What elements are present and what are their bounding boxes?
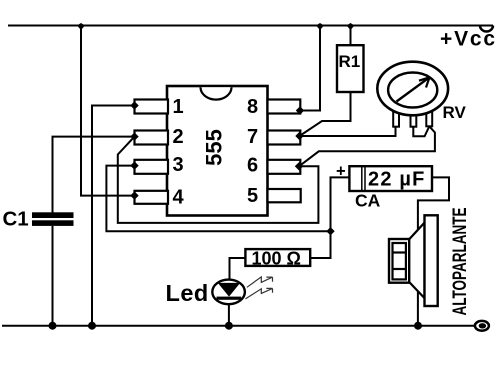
svg-text:4: 4: [173, 187, 185, 209]
node ground dot speaker: [414, 322, 422, 330]
node pin2 junction: [130, 132, 138, 140]
svg-text:C1: C1: [3, 207, 29, 230]
pin 4 stub: [135, 191, 169, 204]
node output-cap junction: [326, 227, 334, 235]
node pin8 junction: [296, 106, 304, 114]
svg-text:R1: R1: [339, 52, 361, 71]
wire output node to 100ohm: [310, 231, 330, 258]
svg-text:100 Ω: 100 Ω: [252, 249, 301, 269]
wire RV right pin to pin6: [299, 126, 435, 166]
pin 6 stub: [268, 160, 301, 174]
node Vcc terminal: [480, 26, 493, 32]
wire pin4 to Vcc rail: [81, 26, 135, 196]
potentiometer RV: [377, 62, 466, 127]
555 IC labels: [173, 96, 259, 209]
capacitor CA 22uF: [336, 163, 432, 211]
wire R1 bottom to pin7: [300, 92, 351, 136]
wire cap plus to output node: [331, 177, 350, 231]
LED D1: [166, 277, 273, 306]
node pin1 junction: [130, 101, 138, 109]
wire RV middle pin tie: [413, 126, 429, 136]
svg-text:+Vcc: +Vcc: [440, 28, 497, 51]
pin 5 stub: [268, 189, 301, 202]
pin 2 stub: [135, 131, 169, 145]
wire LED to ground: [228, 304, 230, 326]
pin 1 stub: [135, 100, 169, 114]
svg-text:CA: CA: [355, 191, 381, 211]
svg-text:555: 555: [202, 129, 227, 166]
svg-text:2: 2: [173, 126, 184, 148]
node ground terminal: [475, 321, 489, 331]
node ground dot LED: [225, 322, 233, 330]
node pin6 junction: [295, 162, 303, 170]
pin 8 stub: [268, 100, 301, 114]
resistor 100 ohm: [245, 249, 310, 269]
svg-text:6: 6: [247, 155, 258, 177]
wire pin2 to C1: [53, 137, 135, 213]
svg-text:7: 7: [247, 126, 258, 148]
node rail tick pin8: [316, 23, 324, 30]
wire bottom ground rail: [2, 325, 475, 327]
wire pin3 output: [106, 166, 330, 232]
node rail tick pin4: [77, 23, 85, 30]
wire cap minus to speaker: [418, 177, 449, 325]
svg-text:ALTOPARLANTE: ALTOPARLANTE: [449, 208, 471, 316]
speaker ALTOPARLANTE: [389, 208, 471, 316]
svg-text:8: 8: [247, 96, 258, 118]
wire R1 top: [350, 26, 352, 46]
pin 3 stub: [135, 160, 169, 174]
wire pin2 to pin6 tie: [118, 137, 319, 223]
wire pin1 to ground: [92, 106, 135, 326]
svg-text:+: +: [336, 163, 346, 181]
op-amp U1 555 IC body: [167, 86, 268, 216]
node ground dot C1: [49, 322, 57, 330]
svg-text:22 µF: 22 µF: [368, 169, 426, 191]
wire pin8 to Vcc rail: [300, 26, 320, 111]
wire C1 to ground: [52, 226, 54, 326]
resistor R1: [337, 45, 364, 92]
svg-text:5: 5: [247, 185, 258, 207]
wire pin7 to RV left pin: [300, 127, 396, 137]
svg-text:3: 3: [173, 154, 184, 176]
svg-text:1: 1: [173, 96, 184, 118]
wire 100ohm to LED: [230, 258, 246, 280]
pin 7 stub: [268, 131, 301, 145]
svg-text:RV: RV: [443, 103, 467, 122]
capacitor C1: [3, 207, 74, 230]
node ground dot pin1: [88, 322, 96, 330]
node pin3 junction: [130, 161, 138, 169]
node rail tick R1: [347, 23, 355, 30]
node pin7 junction: [295, 132, 303, 140]
svg-text:Led: Led: [166, 280, 209, 306]
LED light rays: [245, 277, 272, 299]
node pin4 junction: [130, 191, 138, 199]
wire top +Vcc rail: [8, 25, 493, 27]
